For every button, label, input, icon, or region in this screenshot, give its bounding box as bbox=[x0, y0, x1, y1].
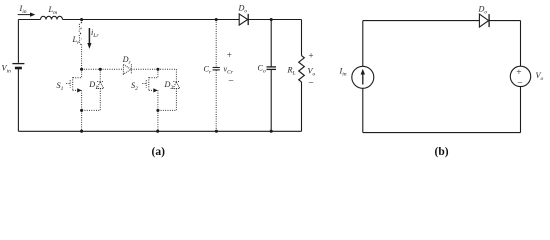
svg-text:Vo: Vo bbox=[536, 71, 544, 82]
svg-text:+: + bbox=[309, 51, 314, 61]
capacitor Co branch top lead bbox=[270, 20, 272, 67]
wire: circuit (a) right rail below RL bbox=[301, 82, 303, 131]
diode D2 triangle (points up) bbox=[173, 82, 180, 89]
wire: circuit (b) left rail above Iin source bbox=[362, 21, 364, 67]
node: S1 leg on bottom rail bbox=[80, 130, 83, 133]
wire: circuit (a) bottom rail bbox=[18, 130, 301, 132]
svg-text:Dr: Dr bbox=[122, 55, 132, 66]
svg-text:iLr: iLr bbox=[91, 28, 99, 39]
capacitor Co plates bbox=[267, 66, 277, 68]
node: Co tap on top rail bbox=[270, 18, 273, 21]
svg-text:–: – bbox=[228, 75, 234, 85]
node: Co leg on bottom rail bbox=[270, 130, 273, 133]
capacitor Cr branch top lead (dotted) bbox=[215, 20, 217, 68]
switch S1 source lead to branch bbox=[81, 90, 83, 110]
wire: circuit (a) top rail, Lm to Do anode bbox=[63, 19, 240, 21]
svg-text:S2: S2 bbox=[131, 81, 138, 92]
svg-text:–: – bbox=[308, 77, 314, 87]
wire: circuit (b) left rail below Iin source bbox=[362, 88, 364, 132]
switch S1 source lead with arrow bbox=[73, 89, 78, 91]
switch S2 gate lead bbox=[142, 83, 145, 85]
diode D2 bottom lead and jog to S2 branch bbox=[158, 89, 177, 111]
wire: Lr to node A (dotted) bbox=[81, 44, 83, 69]
node: S2 leg on bottom rail bbox=[156, 130, 159, 133]
diode D2 top lead (dotted) bbox=[175, 69, 177, 81]
svg-text:Lm: Lm bbox=[48, 5, 58, 16]
wire: dotted mid bus node A to D1 top bbox=[82, 68, 101, 70]
node: Cr leg on bottom rail bbox=[215, 130, 218, 133]
node: S2 top junction bbox=[156, 68, 159, 71]
current arrow iLr bbox=[88, 28, 90, 44]
svg-text:D1: D1 bbox=[88, 80, 98, 91]
diode D1 top lead (dotted) bbox=[99, 69, 101, 81]
svg-text:+: + bbox=[227, 50, 232, 60]
dotted resonant network of circuit (a) bbox=[57, 20, 220, 132]
switch S1 drain lead (dotted) bbox=[73, 69, 82, 77]
svg-text:Do: Do bbox=[238, 4, 248, 15]
switch S1 gate bar bbox=[69, 80, 71, 88]
voltage source Vo circle bbox=[510, 66, 530, 86]
node: Cr tap on top rail bbox=[215, 18, 218, 21]
switch S2 channel bar bbox=[148, 77, 150, 91]
node: D1 top junction bbox=[99, 68, 102, 71]
switch S2 drain lead (dotted) bbox=[149, 69, 158, 77]
wire: S2 cell bottom node to bottom rail (dotted) bbox=[157, 110, 159, 131]
current source Iin circle bbox=[352, 66, 374, 88]
svg-text:RL: RL bbox=[287, 65, 296, 76]
switch S1 source arrowhead bbox=[77, 88, 82, 92]
wire: circuit (a) right rail above RL bbox=[301, 20, 303, 56]
diode Dr (dotted) bbox=[123, 64, 131, 74]
capacitor Cr plates bbox=[213, 67, 220, 69]
diode D1 triangle (points up) bbox=[97, 82, 104, 89]
svg-text:Cr: Cr bbox=[204, 65, 212, 76]
wire: circuit (b) bottom rail bbox=[363, 132, 521, 134]
switch S1 gate lead bbox=[66, 83, 69, 85]
node A: Lr / S1 / mid-bus junction bbox=[80, 68, 83, 71]
wire: S1 cell bottom node to bottom rail (dotted) bbox=[81, 110, 83, 131]
inductor Lr (dotted coil) bbox=[81, 20, 83, 23]
svg-text:Vo: Vo bbox=[308, 67, 316, 78]
switch S2 source lead with arrow bbox=[149, 89, 154, 91]
wire: circuit (b) top rail right of Do bbox=[489, 20, 520, 22]
inductor Lm bbox=[41, 16, 63, 19]
resistor RL zigzag bbox=[299, 56, 305, 82]
node: S2/D2 bottom junction bbox=[156, 109, 159, 112]
svg-text:Co: Co bbox=[258, 64, 266, 75]
capacitor Co branch bottom lead bbox=[270, 70, 272, 131]
current arrow Iin bbox=[18, 14, 31, 16]
wire: circuit (b) right rail below Vo source bbox=[520, 87, 522, 133]
wire: circuit (a) left rail top segment (Vin top lead) bbox=[17, 20, 19, 63]
svg-text:D2: D2 bbox=[164, 80, 174, 91]
wire: circuit (a) left rail bottom segment (Vin bottom lead) bbox=[17, 69, 19, 131]
svg-text:vCr: vCr bbox=[224, 65, 234, 76]
battery Vin long plate bbox=[12, 63, 24, 65]
switch S2 source arrowhead bbox=[153, 88, 158, 92]
current source Iin arrow bbox=[362, 74, 364, 85]
capacitor Cr branch bottom lead (dotted) bbox=[215, 70, 217, 131]
wire: dotted mid bus Dr cathode to S2 top bbox=[131, 68, 158, 70]
svg-text:(b): (b) bbox=[435, 146, 449, 158]
battery Vin short thick plate bbox=[15, 67, 22, 70]
diode D2 cathode bar bbox=[173, 81, 179, 83]
diode Do (circuit a) bbox=[239, 14, 248, 25]
wire: circuit (b) top rail left of Do bbox=[363, 20, 480, 22]
wire: dotted mid bus S2 top to D2 branch corner bbox=[158, 68, 177, 70]
svg-text:Iin: Iin bbox=[339, 67, 347, 78]
diode Do (circuit b) bbox=[479, 14, 488, 27]
svg-text:–: – bbox=[517, 77, 523, 87]
node: Lr tap on top rail bbox=[80, 18, 83, 21]
switch S2 source lead to branch bbox=[157, 90, 159, 110]
wire: dotted mid bus D1 top to Dr anode bbox=[100, 68, 123, 70]
svg-text:Lr: Lr bbox=[72, 35, 81, 46]
switch S2 gate bar bbox=[145, 80, 147, 88]
wire: circuit (b) right rail above Vo source bbox=[520, 21, 522, 67]
wire: circuit (a) top rail, Do cathode to top-right corner bbox=[248, 19, 301, 21]
svg-text:Vin: Vin bbox=[2, 64, 12, 75]
node: S1/D1 bottom junction bbox=[80, 109, 83, 112]
diode D1 cathode bar bbox=[97, 81, 103, 83]
switch S1 channel bar bbox=[72, 77, 74, 91]
svg-text:(a): (a) bbox=[152, 146, 166, 158]
svg-text:Iin: Iin bbox=[19, 4, 27, 15]
svg-text:S1: S1 bbox=[57, 81, 64, 92]
wire: circuit (a) top rail, Vin to Lm bbox=[18, 19, 40, 21]
diode D1 bottom lead and jog to S1 branch bbox=[82, 89, 101, 111]
